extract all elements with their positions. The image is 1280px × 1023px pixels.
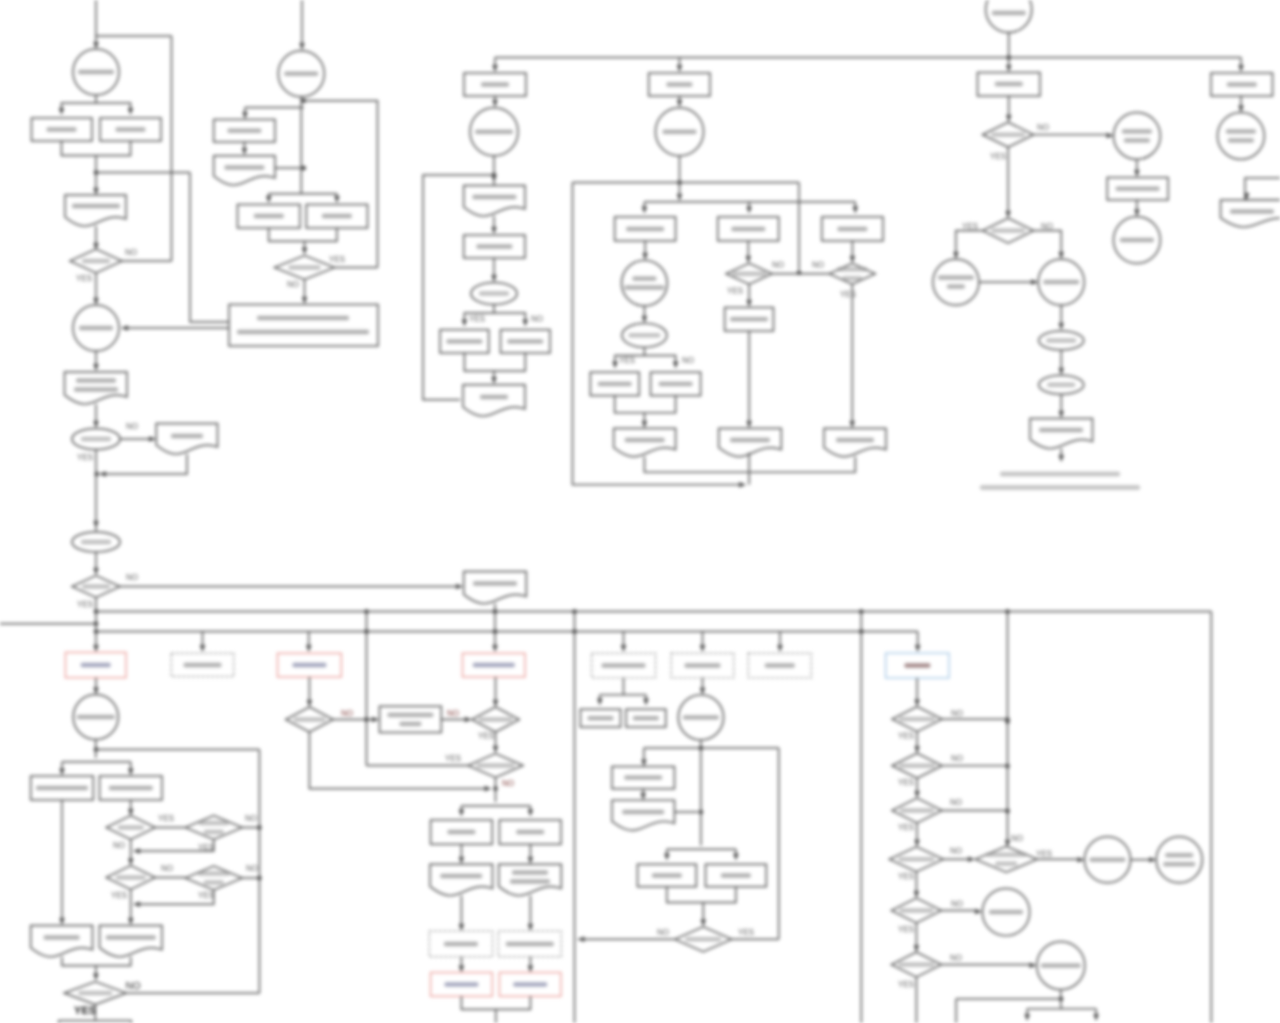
process E7: info display xyxy=(590,372,639,395)
input H2: contact input (red) xyxy=(278,653,342,677)
junction start/top-bus xyxy=(1006,55,1011,60)
input H13: request input (dashed) xyxy=(498,931,561,957)
wire: D4 NO branch xyxy=(494,313,525,323)
wire: K4 YES to K5 xyxy=(916,823,918,844)
wire: K2 YES to K3 xyxy=(916,732,918,750)
process G0: how-to rect xyxy=(1211,73,1273,96)
wire: card loop left down xyxy=(573,183,746,485)
wire: B7 YES to doc B10 xyxy=(130,890,132,922)
svg-text:YES: YES xyxy=(619,356,635,365)
node L5: card pay page circle xyxy=(1037,942,1085,990)
wire: bus2 to H1 xyxy=(202,632,204,650)
wire: B7 NO to B8 xyxy=(155,877,185,879)
svg-text:YES: YES xyxy=(898,732,914,741)
document A9: like list output xyxy=(65,372,128,404)
svg-text:NO: NO xyxy=(657,928,669,937)
decision L1: order confirm? xyxy=(975,846,1037,872)
wire: merge below docs xyxy=(62,957,131,966)
svg-text:NO: NO xyxy=(682,356,694,365)
wire: merge to C6 xyxy=(304,241,306,252)
input H3: delivery info (red) xyxy=(463,653,526,677)
wire: L5 to split xyxy=(1060,1005,1062,1009)
svg-text:YES: YES xyxy=(329,255,345,264)
process E8: fail display xyxy=(651,372,701,395)
wire: F7 to doc F8 xyxy=(1060,394,1062,415)
process H8: time select xyxy=(431,820,493,844)
junction retry/B8 NO xyxy=(257,876,262,881)
wire: H8 to doc H10 xyxy=(460,844,462,860)
wire: D1 down through buses xyxy=(494,604,496,650)
process D5b: fail display xyxy=(501,330,551,353)
junction below L5 xyxy=(1059,997,1064,1002)
wire: junction to right loop xyxy=(96,172,190,174)
junction I8/vertical xyxy=(699,810,704,815)
svg-text:YES: YES xyxy=(898,925,914,934)
process I12: delete product xyxy=(706,864,767,887)
document D5: result output xyxy=(463,385,525,416)
wire: merge below H14/H15 xyxy=(461,996,530,1009)
svg-text:NO: NO xyxy=(126,573,138,582)
wire: B11 NO to retry loop xyxy=(126,992,259,994)
wire: I6 down through doc junction xyxy=(700,740,702,846)
wire: A5 NO to loop xyxy=(122,260,172,262)
wire: docs merge horizontal xyxy=(644,457,855,473)
wire: promo loop left xyxy=(423,175,494,400)
wire: A13 NO to doc D1 (long) xyxy=(120,586,460,588)
decision H6: address correct? xyxy=(472,707,520,732)
wire: K3 YES to K4 xyxy=(916,778,918,794)
wire: A11 loop back xyxy=(100,454,187,474)
svg-text:NO: NO xyxy=(951,754,963,763)
note text line 2 xyxy=(980,485,1140,489)
process C5: delete product xyxy=(306,205,367,229)
input H15: est time input 2 (red) xyxy=(499,973,561,997)
wire: H4 YES down right to junction xyxy=(309,732,488,789)
wire: branch right to retry loop xyxy=(96,749,259,751)
svg-text:NO: NO xyxy=(126,981,141,992)
decision K2: logged in? xyxy=(892,707,942,732)
arrowhead into branch point xyxy=(677,194,683,201)
process E2: payment card add xyxy=(615,217,676,241)
process D5a: info display xyxy=(440,330,489,353)
process I5: delete product small xyxy=(626,709,666,727)
wire: A6 down to doc A9 xyxy=(95,351,97,368)
process A2: add product xyxy=(32,118,93,141)
wire: E2 to E5 xyxy=(644,241,646,257)
process I7: product name input xyxy=(612,767,674,789)
wire: merge below C4/C5 xyxy=(269,228,337,241)
svg-text:NO: NO xyxy=(1011,834,1023,843)
process I4: add product small xyxy=(580,709,620,727)
decision K4: point use? xyxy=(892,798,942,823)
junction D1/bus1 xyxy=(493,609,498,614)
wire: K7 YES down to bottom edge xyxy=(915,977,917,1023)
wire: A5 YES down xyxy=(95,273,97,301)
junction bus1/x1007 xyxy=(1005,609,1010,614)
wire: E10 NO to E13 xyxy=(772,273,829,275)
document D1: sale info output xyxy=(464,572,527,604)
wire: H4 NO to H5 xyxy=(333,719,376,721)
svg-text:NO: NO xyxy=(126,422,138,431)
svg-text:NO: NO xyxy=(950,847,962,856)
wire: F0 to F1 xyxy=(1008,96,1010,119)
document B9: input complete xyxy=(31,926,93,957)
input I1: sale adjust (dashed) xyxy=(592,653,656,678)
input I3: store input (dashed) xyxy=(748,653,811,678)
decision K6: pay method? xyxy=(891,898,941,923)
node A6: cart page circle xyxy=(73,305,119,351)
wire: I13 YES to loop xyxy=(732,938,779,940)
svg-text:NO: NO xyxy=(812,261,824,270)
wire: branch to add/del xyxy=(269,193,337,195)
wire: C3 to main vertical xyxy=(275,167,301,169)
decision E6: register ok? xyxy=(622,323,667,347)
document C3: search result output xyxy=(214,156,275,185)
wire: I8 to vertical xyxy=(674,811,698,813)
document B10: current address output xyxy=(100,926,163,957)
document H11: request saved output xyxy=(499,864,562,895)
wire: H3 to H6 xyxy=(495,677,497,704)
wire: loop down to cart-info rect xyxy=(190,173,229,323)
decision F7: point check? xyxy=(1039,375,1084,394)
wire: split to B3/B4 xyxy=(62,761,131,763)
wire: D4 YES branch xyxy=(464,305,494,324)
svg-text:YES: YES xyxy=(990,152,1006,161)
wire: B1 to B2 xyxy=(95,678,97,691)
input H12: time input (dashed) xyxy=(429,931,492,957)
svg-text:NO: NO xyxy=(287,280,299,289)
wire: bus2 to H2 xyxy=(308,632,310,650)
wire: I7 to doc I8 xyxy=(642,789,644,797)
arrowhead pointing into A6 from note wire xyxy=(121,325,128,331)
document D2: promo guide output xyxy=(464,186,525,217)
wire: branch to product-name input xyxy=(245,107,304,109)
node F4: wallet page circle xyxy=(933,259,979,305)
bus 1 horizontal y=611 xyxy=(96,611,1211,613)
wire: left edge line into main vertical xyxy=(0,623,96,625)
svg-text:NO: NO xyxy=(161,864,173,873)
process D0: promotion entry rect xyxy=(464,73,526,96)
wire: F3 YES to F4 xyxy=(956,231,983,256)
wire: E10 YES to E11 xyxy=(748,284,750,304)
svg-text:YES: YES xyxy=(478,732,494,741)
wire: merge to I13 xyxy=(702,903,704,924)
decision F6: coupon check? xyxy=(1039,331,1084,350)
svg-text:NO: NO xyxy=(1037,123,1049,132)
document E14: selected card delete xyxy=(824,428,886,456)
wire: card branch horizontal xyxy=(644,201,855,203)
wire: L2 to L3 xyxy=(1131,859,1153,861)
wire: K5 YES to K6 xyxy=(915,872,917,895)
wire: H13 to red H15 xyxy=(529,957,531,969)
input H14: est time input (red) xyxy=(431,973,493,997)
svg-text:YES: YES xyxy=(76,274,92,283)
wire: L1 YES to L2 xyxy=(1037,858,1081,860)
wire: F4-F5 horizontal xyxy=(979,281,1035,283)
arrowhead into category circle xyxy=(93,42,99,49)
wire: I2 to I6 xyxy=(702,678,704,692)
junction on activate NO line xyxy=(797,271,802,276)
process E3: card activate xyxy=(718,217,779,241)
wire: H7 NO down xyxy=(495,778,497,803)
wire: B5 NO down to B7 xyxy=(130,840,132,863)
node E5: push card register circle xyxy=(622,260,668,306)
wire: G0 to G1 xyxy=(1240,96,1242,109)
junction on loop line xyxy=(677,180,682,185)
node G1: how-to page circle xyxy=(1218,112,1265,159)
process F9: mypage select xyxy=(1107,178,1168,201)
junction H7/contact line xyxy=(493,786,498,791)
wire: E6 NO branch xyxy=(644,356,675,366)
wire: F1 YES down to F3 xyxy=(1007,147,1009,215)
junction below D1 xyxy=(492,173,497,178)
wire: C6 NO to big rect xyxy=(304,280,306,302)
wire: branch left down to I7 xyxy=(643,748,645,763)
svg-text:YES: YES xyxy=(198,891,214,900)
wire: G2 into G3 xyxy=(1246,194,1248,197)
bus 2 horizontal y=631 xyxy=(96,631,918,633)
wire: loop right to NO line xyxy=(798,183,800,271)
wire: D0 to D1 xyxy=(494,96,496,104)
process I11: add product xyxy=(638,864,697,887)
decision B7: gps retry? xyxy=(106,866,155,890)
process F0: login rect xyxy=(978,73,1041,97)
wire: split horizontal xyxy=(1027,1008,1096,1010)
svg-text:YES: YES xyxy=(898,872,914,881)
wire: F8 down to note xyxy=(1060,449,1062,459)
svg-text:NO: NO xyxy=(772,261,784,270)
node I6: product page circle xyxy=(678,695,723,740)
wire: merge below A2/A3 xyxy=(62,141,131,156)
wire: K1 to K2 xyxy=(916,678,918,704)
wire: D1 down to doc D2 xyxy=(493,156,495,185)
wire: left from L5 junction xyxy=(956,998,1061,1000)
svg-text:YES: YES xyxy=(158,814,174,823)
svg-text:YES: YES xyxy=(898,823,914,832)
decision B5: gps ok? xyxy=(106,816,155,840)
wire: B6 YES back left xyxy=(134,840,214,852)
wire: F5 to F6 xyxy=(1060,305,1062,327)
junction bus2 left end xyxy=(94,629,99,634)
svg-text:NO: NO xyxy=(502,779,514,788)
decision A12: login check? xyxy=(72,532,120,552)
node F10: pay complete circle xyxy=(1114,217,1161,264)
wire: C6 YES to loop xyxy=(335,267,378,269)
svg-text:NO: NO xyxy=(447,709,459,718)
wire: top edge into search circle xyxy=(301,0,303,47)
svg-text:YES: YES xyxy=(840,290,856,299)
wire: F1 NO to F2 xyxy=(1034,134,1110,136)
wire: K3 NO right to x1007 xyxy=(942,765,1007,767)
process D3: promotion input xyxy=(464,235,525,258)
decision B11: correct address? xyxy=(64,982,126,1005)
process A3: delete product xyxy=(100,118,161,141)
wire: H10 to dashed H12 xyxy=(460,896,462,928)
decision A13: member? xyxy=(72,576,120,598)
junction K4NO/x1007 xyxy=(1005,809,1010,814)
svg-text:YES: YES xyxy=(445,754,461,763)
svg-text:YES: YES xyxy=(898,778,914,787)
wire: merge down to bottom edge xyxy=(495,1009,497,1023)
wire: bus2 to I3 xyxy=(779,632,781,650)
input K1: checkout (blue) xyxy=(886,653,949,678)
decision H4: member info? xyxy=(286,707,334,732)
svg-text:NO: NO xyxy=(125,248,137,257)
wire: A10 YES long down xyxy=(95,450,97,532)
document E12: selected card activate xyxy=(719,428,782,456)
node S: sitemap start circle xyxy=(986,0,1032,33)
wire: card loop horizontal xyxy=(573,182,800,184)
decision H7: delivery request? xyxy=(468,754,523,778)
node C1: search page circle xyxy=(278,51,324,97)
decision A10: buy now? xyxy=(72,429,120,450)
bus: top horizontal y=57 xyxy=(495,57,1241,59)
wire: E13 YES long down to doc E14 xyxy=(851,284,853,424)
svg-text:YES: YES xyxy=(111,891,127,900)
wire: bus2 to I2 xyxy=(702,632,704,650)
junction bus1/x574 xyxy=(572,609,577,614)
wire: merge down to junction xyxy=(95,156,97,173)
decision I13: more product? xyxy=(675,927,732,952)
wire: K7 NO to L5 xyxy=(941,964,1033,966)
node A1: category select circle xyxy=(73,49,119,95)
process B12: bottom rect (cut) xyxy=(59,1021,132,1023)
wire: K6 NO to L4 xyxy=(941,910,978,912)
junction below I6 xyxy=(699,746,704,751)
document A11: refresh output xyxy=(156,424,217,455)
svg-text:YES: YES xyxy=(77,453,93,462)
decision F3: first visit? xyxy=(983,218,1034,243)
node B2: address search page circle xyxy=(73,695,118,740)
process E0: collection rect xyxy=(649,73,710,96)
wire: long vertical x=574 from bus1 to bottom xyxy=(574,612,576,1023)
input H1: signup input (dashed) xyxy=(171,653,234,676)
decision K7: card pay? xyxy=(891,952,941,977)
wire: vertical x=366 from bus1 xyxy=(366,612,368,766)
wire: E3 to E10 xyxy=(747,241,749,260)
document E9: data output xyxy=(614,428,676,456)
svg-text:YES: YES xyxy=(77,600,93,609)
node F2: order page circle xyxy=(1114,112,1161,159)
wire: E11 long down to doc E12 xyxy=(748,331,750,425)
junction D1/bus2 xyxy=(493,629,498,634)
wire: loop top horizontal xyxy=(96,35,172,37)
wire: H12 to red H14 xyxy=(460,957,462,969)
wire: loop right vertical to diamond NO xyxy=(171,36,173,261)
wire: branch below I6 xyxy=(644,747,779,749)
wire: B3 long down to doc B9 xyxy=(61,800,63,922)
document F8: coupon point output xyxy=(1030,419,1093,449)
process G2: offscreen rect right xyxy=(1245,178,1280,200)
svg-text:NO: NO xyxy=(531,315,543,324)
decision F1: logged in? xyxy=(983,122,1034,147)
wire: A4 to diamond A5 xyxy=(95,226,97,246)
wire: E0 to E1 xyxy=(679,96,681,104)
wire: top edge into category circle xyxy=(95,0,97,46)
wire: B5 YES to B6 xyxy=(155,827,185,829)
wire: A10 NO to doc A11 xyxy=(120,438,152,440)
junction below A10 xyxy=(94,472,99,477)
wire: E5 to E6 xyxy=(643,306,645,320)
wire: K5 NO to L1 xyxy=(943,858,971,860)
decision B6: location agree? xyxy=(185,816,242,840)
svg-text:NO: NO xyxy=(245,814,257,823)
document I8: product search output xyxy=(612,800,674,830)
junction bus1 left end xyxy=(94,609,99,614)
wire: I13 NO left to x574 xyxy=(578,938,675,940)
wire: L5 down xyxy=(1060,990,1062,1005)
wire: split to H8/H9 xyxy=(461,805,530,807)
junction at (304,168) xyxy=(301,166,306,171)
wire: K6 YES to K7 xyxy=(915,923,917,949)
svg-text:YES: YES xyxy=(962,222,978,231)
node L3: confirm page circle xyxy=(1156,837,1202,883)
wire: start down through bus xyxy=(1008,33,1010,70)
wire: H2 to H4 xyxy=(308,677,310,704)
wire: loop right of search flow xyxy=(304,101,378,268)
svg-text:NO: NO xyxy=(341,709,353,718)
decision A5: product confirm? xyxy=(70,249,122,273)
wire: H5 to H6 xyxy=(441,719,468,721)
wire: merge below D5a/D5b xyxy=(464,353,525,371)
document G3: address done output xyxy=(1221,200,1280,227)
decision C6: more action? xyxy=(275,256,335,280)
junction below C1 xyxy=(301,98,306,103)
wire: E1 down to card branch xyxy=(679,156,681,198)
svg-text:NO: NO xyxy=(950,798,962,807)
node D1: promotion page circle xyxy=(470,108,518,156)
process E11: active card select xyxy=(725,308,774,332)
decision K5: coupon use? xyxy=(889,847,943,872)
svg-text:YES: YES xyxy=(74,1005,96,1017)
wire: D2 to D3 xyxy=(493,216,495,231)
svg-text:NO: NO xyxy=(951,900,963,909)
process C4: add product xyxy=(238,205,301,229)
node L4: login page circle xyxy=(982,889,1029,936)
process H5: confirm info rect xyxy=(380,706,442,732)
wire: F6 to F7 xyxy=(1060,350,1062,372)
svg-text:YES: YES xyxy=(469,315,485,324)
wire: A1 to add-product xyxy=(62,95,97,112)
arrowhead bottom right cut xyxy=(1093,1014,1099,1021)
wire: bus to promo rect xyxy=(494,58,496,70)
wire: E4 to E13 xyxy=(851,241,853,260)
wire: A12 to A13 xyxy=(95,552,97,572)
wire: merge to B11 xyxy=(95,966,97,977)
wire: I1 down to split xyxy=(623,678,625,695)
wire: B8 YES back left xyxy=(134,890,214,904)
wire: F9 to F10 xyxy=(1136,200,1138,214)
wire: B4 to B5 xyxy=(130,800,132,813)
wire: B11 YES down xyxy=(94,1005,96,1021)
svg-text:YES: YES xyxy=(1036,850,1052,859)
svg-text:YES: YES xyxy=(738,928,754,937)
wire: B8 NO to retry loop xyxy=(242,877,259,879)
junction K3NO/x1007 xyxy=(1005,764,1010,769)
wire: merge below E7/E8 xyxy=(615,396,676,413)
wire: merge to doc D5 xyxy=(493,371,495,381)
decision B8: manual input? xyxy=(185,866,242,890)
wire: bus to how-to rect xyxy=(1240,58,1242,70)
svg-text:NO: NO xyxy=(951,709,963,718)
node L2: payment list circle xyxy=(1085,837,1131,883)
wire: down to doc A4 xyxy=(95,173,97,192)
input I2: sale add (dashed) xyxy=(671,653,734,678)
process C2: product name input xyxy=(214,120,275,143)
junction K2NO/x1007 xyxy=(1005,717,1010,722)
input B1: address input (red) xyxy=(65,652,126,677)
decision D4: applied? xyxy=(471,283,517,305)
